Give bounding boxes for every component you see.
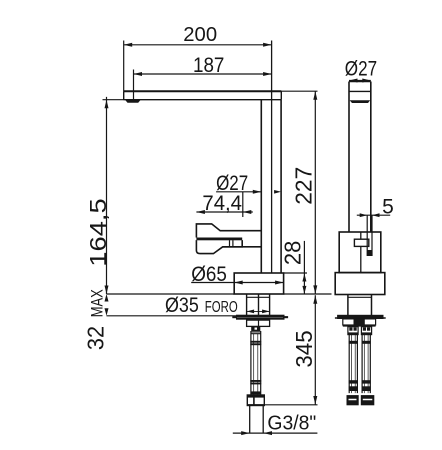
- right view shank inner top line: [348, 296, 372, 298]
- right view nut under edge: [343, 325, 376, 327]
- right view lever hub box: [354, 239, 368, 246]
- handle upper blade: [196, 224, 261, 238]
- threaded shank left view: [247, 294, 270, 316]
- right view wide nut row: [343, 319, 376, 325]
- right view flange: [337, 315, 383, 319]
- handle stem lower line: [223, 246, 262, 248]
- mounting flange left view: [236, 315, 285, 320]
- svg-text:227: 227: [291, 167, 317, 205]
- column right edge: [280, 100, 282, 273]
- dim O65 line: [191, 282, 283, 284]
- hose fitting band upper: [250, 341, 261, 343]
- svg-text:Ø27: Ø27: [345, 58, 377, 81]
- right view spout top band line: [349, 90, 371, 92]
- left shank inner top line: [247, 296, 270, 298]
- dim 74,4 line: [196, 211, 252, 213]
- hose end nut left view: [247, 395, 264, 406]
- handle stem ticks: [230, 240, 233, 247]
- svg-text:74,4: 74,4: [202, 192, 242, 215]
- svg-text:G3/8": G3/8": [267, 412, 316, 434]
- right view body center seam: [360, 232, 362, 273]
- right view hose tubes: [349, 335, 370, 394]
- svg-text:187: 187: [193, 54, 224, 77]
- dim 28 line: [303, 241, 305, 294]
- dim 32 arrows: [105, 294, 109, 302]
- dim 187 line: [134, 73, 272, 75]
- svg-text:5: 5: [382, 196, 394, 219]
- dimension graphics: [103, 41, 391, 436]
- hose fitting band lower: [250, 380, 261, 382]
- svg-text:200: 200: [183, 24, 217, 46]
- column left edge: [260, 100, 262, 273]
- dim 200 line: [124, 44, 272, 46]
- handle lower blade: [196, 240, 242, 254]
- dimension texts: [82, 24, 393, 434]
- dim 74,4 extension: [242, 192, 244, 217]
- mounting nut left view: [247, 320, 270, 326]
- right view base block: [335, 273, 385, 295]
- dim G3/8 line: [233, 432, 318, 434]
- dim 227 line: [314, 91, 316, 294]
- svg-text:345: 345: [291, 330, 317, 367]
- dim 345 extension: [264, 404, 318, 406]
- right view lever strip: [367, 215, 372, 256]
- right view hose end nuts: [347, 395, 359, 405]
- spout horizontal bar: [124, 90, 282, 92]
- dim 5 line: [357, 214, 390, 216]
- dim 164,5 line: [106, 97, 108, 294]
- right view hose bands lower: [349, 380, 358, 383]
- deck bottom line: [107, 315, 247, 317]
- svg-text:28: 28: [280, 241, 306, 265]
- right view spout tube: [349, 82, 371, 233]
- right view hose fittings: [348, 327, 358, 335]
- right view aerator band: [350, 100, 371, 103]
- hose tube left view: [251, 331, 261, 395]
- hose band above nut: [251, 391, 261, 394]
- svg-text:164,5: 164,5: [85, 198, 111, 266]
- svg-text:Ø35: Ø35: [165, 294, 199, 317]
- right view hose bands upper: [349, 341, 358, 344]
- dim O27 right view line: [349, 80, 371, 82]
- right view body box: [339, 232, 381, 273]
- base block left view: [234, 273, 283, 294]
- dim O35 arrows: [247, 310, 270, 312]
- svg-text:MAX: MAX: [88, 289, 106, 317]
- right view shank: [348, 295, 372, 315]
- deck top line: [107, 293, 332, 295]
- svg-text:FORO: FORO: [205, 299, 238, 316]
- svg-text:32: 32: [82, 326, 108, 350]
- column center seam / dim extension: [271, 41, 273, 274]
- dim O27 left view leader: [216, 191, 261, 193]
- hose connector black box: [251, 327, 260, 331]
- dim 164,5 extension: [103, 99, 125, 101]
- handle plate black bar: [196, 238, 242, 241]
- dim 200 extension left: [123, 41, 125, 92]
- dim 187 extension: [133, 70, 135, 100]
- aerator nub: [125, 100, 141, 103]
- dim 345 line: [314, 295, 316, 404]
- svg-text:Ø65: Ø65: [191, 263, 227, 286]
- dim 227 extension: [281, 90, 317, 92]
- G3/8 end pipe: [250, 406, 264, 434]
- hose connector band lines: [251, 332, 261, 334]
